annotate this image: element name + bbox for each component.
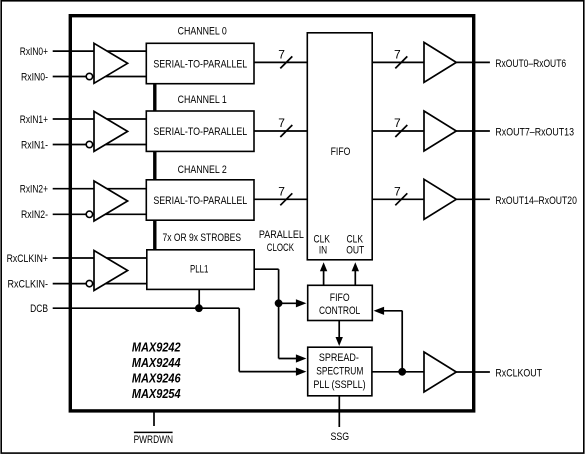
svg-text:OUT: OUT (346, 245, 364, 257)
svg-text:7: 7 (394, 184, 401, 198)
svg-text:PLL1: PLL1 (190, 263, 209, 275)
svg-text:RxOUT7–RxOUT13: RxOUT7–RxOUT13 (495, 127, 574, 139)
svg-text:MAX9246: MAX9246 (132, 371, 182, 385)
svg-text:MAX9242: MAX9242 (132, 340, 181, 354)
svg-text:CHANNEL 1: CHANNEL 1 (178, 94, 227, 106)
svg-text:RxCLKIN+: RxCLKIN+ (7, 253, 48, 265)
svg-text:RxIN1+: RxIN1+ (20, 114, 48, 126)
svg-text:RxCLKIN-: RxCLKIN- (8, 279, 49, 291)
svg-text:RxOUT0–RxOUT6: RxOUT0–RxOUT6 (495, 58, 566, 70)
svg-text:PARALLEL: PARALLEL (259, 229, 304, 241)
svg-text:CLOCK: CLOCK (267, 242, 295, 254)
svg-text:DCB: DCB (30, 303, 48, 315)
svg-text:7: 7 (394, 47, 401, 61)
svg-text:SSG: SSG (331, 431, 350, 443)
svg-text:PLL (SSPLL): PLL (SSPLL) (313, 379, 365, 391)
svg-text:7: 7 (278, 116, 285, 130)
svg-text:7x OR 9x STROBES: 7x OR 9x STROBES (163, 232, 242, 244)
svg-text:RxOUT14–RxOUT20: RxOUT14–RxOUT20 (495, 195, 577, 207)
svg-text:SPREAD-: SPREAD- (319, 352, 359, 364)
svg-text:7: 7 (278, 47, 285, 61)
svg-text:PWRDWN: PWRDWN (134, 434, 173, 446)
svg-text:RxIN1-: RxIN1- (21, 139, 48, 151)
svg-text:CONTROL: CONTROL (319, 305, 360, 317)
svg-text:7: 7 (394, 116, 401, 130)
svg-text:IN: IN (319, 245, 327, 257)
svg-text:RxIN2-: RxIN2- (21, 209, 48, 221)
svg-text:CHANNEL 2: CHANNEL 2 (178, 164, 227, 176)
svg-text:SERIAL-TO-PARALLEL: SERIAL-TO-PARALLEL (153, 58, 247, 70)
svg-text:SPECTRUM: SPECTRUM (316, 365, 363, 377)
svg-text:FIFO: FIFO (330, 292, 350, 304)
svg-text:MAX9244: MAX9244 (132, 356, 181, 370)
svg-text:CHANNEL 0: CHANNEL 0 (178, 25, 227, 37)
svg-text:SERIAL-TO-PARALLEL: SERIAL-TO-PARALLEL (153, 195, 247, 207)
svg-text:RxCLKOUT: RxCLKOUT (495, 368, 542, 380)
svg-text:FIFO: FIFO (331, 146, 351, 158)
svg-text:7: 7 (278, 184, 285, 198)
svg-text:RxIN2+: RxIN2+ (20, 184, 48, 196)
svg-text:RxIN0-: RxIN0- (21, 71, 48, 83)
svg-text:MAX9254: MAX9254 (132, 387, 181, 401)
svg-text:SERIAL-TO-PARALLEL: SERIAL-TO-PARALLEL (153, 126, 247, 138)
svg-text:RxIN0+: RxIN0+ (20, 46, 48, 58)
